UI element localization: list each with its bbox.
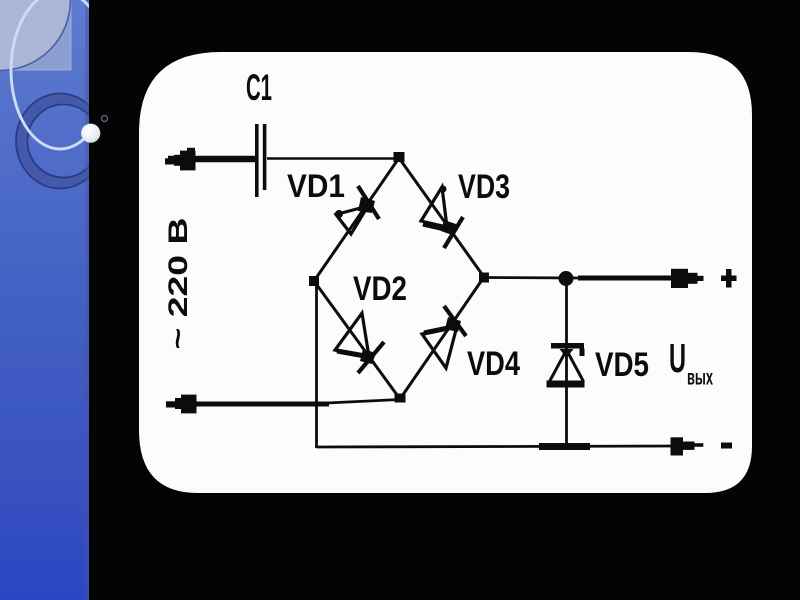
svg-text:VD1: VD1 (287, 168, 345, 204)
decorative dark ring inner (28, 105, 100, 178)
node L (309, 276, 319, 286)
wire: bottom AC to bridge bottom node (316, 400, 400, 404)
wire: capacitor to bridge top node (267, 157, 399, 160)
svg-text:VD2: VD2 (353, 270, 407, 308)
node B (395, 394, 406, 403)
decorative light ring (11, 0, 109, 149)
plus sign (721, 269, 737, 288)
wire: left node drop to bottom rail (315, 281, 318, 448)
decorative quarter arc stroke (0, 0, 71, 71)
sidebar right edge shading (85, 0, 89, 600)
wire: DC plus rail thick part (578, 276, 676, 281)
bridge edge L-B (314, 281, 400, 399)
decorative square top-left (1, 1, 72, 71)
bridge edge B-R (400, 277, 484, 399)
bridge edge L-T (314, 158, 399, 281)
svg-text:U: U (669, 335, 686, 381)
svg-text:VD5: VD5 (595, 346, 649, 384)
arrow left bottom (AC input) (166, 395, 197, 414)
decorative dark ring outer (16, 94, 104, 189)
svg-text:VD4: VD4 (467, 345, 520, 383)
zener diode VD5 (547, 343, 585, 388)
wire: DC plus rail thin part (484, 276, 580, 279)
minus sign (721, 443, 732, 449)
arrow right bottom (DC -) (671, 437, 704, 455)
decorative quarter disc (0, 0, 71, 71)
bridge edge T-R (399, 158, 484, 277)
node R (479, 273, 489, 283)
svg-text:VD3: VD3 (458, 168, 510, 206)
diode VD3 (421, 187, 463, 248)
wire: DC minus rail (317, 446, 677, 447)
junction dot at VD5 top (559, 271, 574, 286)
wire: VD5 branch (565, 279, 568, 448)
arrow right top (DC +) (671, 269, 704, 288)
small circle outline on black (102, 116, 108, 122)
diode VD2 (335, 313, 384, 373)
wire: bottom AC lead (170, 402, 329, 407)
capacitor C1 plates (255, 124, 266, 197)
junction bar at VD5 bottom (539, 443, 590, 450)
svg-text:C1: C1 (246, 67, 272, 108)
svg-text:вых: вых (687, 367, 713, 390)
svg-text:~ 220 В: ~ 220 В (163, 218, 193, 350)
white rounded slide panel (139, 52, 752, 493)
node T (394, 152, 405, 162)
diode VD4 (422, 306, 466, 368)
decorative sphere (81, 124, 100, 143)
arrow left top (AC input) (165, 148, 196, 171)
sidebar background (0, 0, 89, 600)
wire: top AC lead thick (168, 156, 256, 163)
diode VD1 (336, 186, 379, 234)
